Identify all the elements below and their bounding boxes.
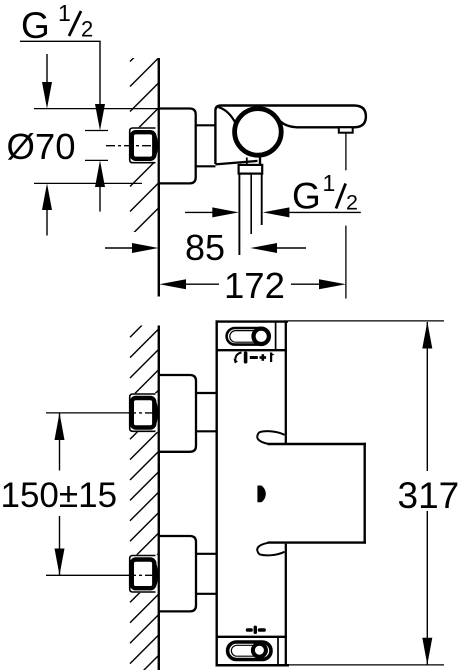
- svg-text:2: 2: [81, 16, 93, 41]
- wall line overlay (upper view): [158, 58, 160, 297]
- upper escutcheon (lower view): [159, 375, 196, 452]
- centerline upper nut (dash-dot): [128, 412, 160, 414]
- svg-text:317: 317: [398, 475, 460, 516]
- shower hose nut: [239, 165, 263, 174]
- extension line 317 top: [288, 320, 444, 322]
- svg-text:G: G: [292, 176, 321, 217]
- spout outlet stub: [339, 127, 353, 132]
- svg-text:85: 85: [185, 227, 225, 268]
- escutcheon (upper view): [159, 109, 196, 184]
- fillet body top to cartridge circle: [219, 107, 236, 123]
- aerator dot: [257, 486, 265, 503]
- top control box divider: [275, 322, 277, 349]
- dimension 317: [422, 322, 432, 665]
- leader/arrow from G1/2 label down to union nut top: [95, 41, 105, 130]
- label G 1/2 (middle, shower outlet): [292, 170, 358, 217]
- cartridge circle (lever boss): [235, 109, 282, 156]
- dimension 85 left arrow (to wall): [105, 243, 159, 253]
- extension line top of escutcheon: [34, 108, 158, 110]
- dimension 70 top arrow: [42, 54, 52, 109]
- extension line nut bottom: [85, 159, 108, 161]
- top knob circle: [254, 329, 269, 344]
- bottom control box top line: [216, 636, 288, 638]
- belly bottom edge: [268, 541, 367, 543]
- body left edge (lower view): [215, 320, 217, 666]
- svg-text:G: G: [21, 5, 50, 46]
- icon row above bottom box: [246, 626, 266, 634]
- icon row below top box: [234, 352, 275, 364]
- body column right edge (lower part): [285, 544, 287, 666]
- extension line bottom of escutcheon: [34, 182, 142, 184]
- bottom slider pill: [228, 642, 271, 660]
- dimension 172: [159, 265, 346, 306]
- wall line overlay (lower view): [158, 326, 160, 670]
- svg-text:1: 1: [58, 0, 71, 26]
- neck lines lower escutcheon: [196, 554, 217, 594]
- neck between escutcheon and body: [196, 125, 216, 166]
- top slider pill: [227, 328, 268, 345]
- faucet body and spout outline (upper view): [215, 106, 366, 165]
- extension line from outlet down (upper): [345, 133, 347, 171]
- body bottom edge: [216, 664, 290, 667]
- extension line nut top: [85, 130, 108, 132]
- dimension G1/2 bottom arrow: [95, 160, 105, 211]
- dimension 150±15: [55, 413, 65, 575]
- dimension 70 bottom arrow: [42, 183, 52, 235]
- bottom control box divider: [277, 638, 279, 664]
- body column right edge (upper part): [285, 320, 287, 443]
- union nut (upper view, side): [129, 127, 158, 163]
- neck lines upper escutcheon: [196, 393, 217, 431]
- centerline lower nut (dash-dot): [128, 574, 160, 576]
- dimension G1/2 pipe, right arrow: [263, 207, 361, 217]
- dimension G1/2 pipe, left arrow: [185, 207, 239, 217]
- extension line from outlet down (lower part): [345, 226, 347, 299]
- body top edge: [216, 320, 289, 322]
- extension line 317 bottom: [289, 664, 444, 666]
- wall line (lower view): [158, 326, 160, 670]
- stubs from circle to hose nut: [246, 158, 248, 166]
- spout silhouette hook (top): [257, 431, 284, 444]
- svg-text:150±15: 150±15: [1, 476, 118, 515]
- belly (spout, front view) top edge: [268, 443, 367, 445]
- svg-text:2: 2: [346, 191, 358, 215]
- wall hatching (lower view): [130, 309, 159, 670]
- svg-text:Ø70: Ø70: [7, 126, 76, 167]
- extension line upper nut center: [46, 412, 128, 414]
- label G 1/2 (top left): [20, 0, 101, 46]
- extension line lower nut center: [46, 574, 128, 576]
- wall hatching (upper view): [130, 33, 159, 337]
- lower union nut (lower view): [129, 555, 158, 593]
- upper union nut (lower view): [129, 393, 158, 432]
- center line of union (dash-dot): [106, 145, 159, 147]
- lower escutcheon (lower view): [159, 536, 196, 611]
- shower hose pipe walls: [239, 174, 261, 255]
- body bottom slant: [215, 161, 257, 165]
- belly right edge: [364, 443, 366, 544]
- spout silhouette hook (bottom): [257, 543, 284, 556]
- top control box bottom line: [216, 349, 288, 351]
- svg-text:172: 172: [224, 265, 285, 306]
- bottom knob circle: [253, 644, 266, 657]
- wall line (upper view): [158, 58, 160, 297]
- dimension 85 right arrow (to pipe center): [250, 243, 306, 253]
- svg-text:1: 1: [323, 170, 336, 196]
